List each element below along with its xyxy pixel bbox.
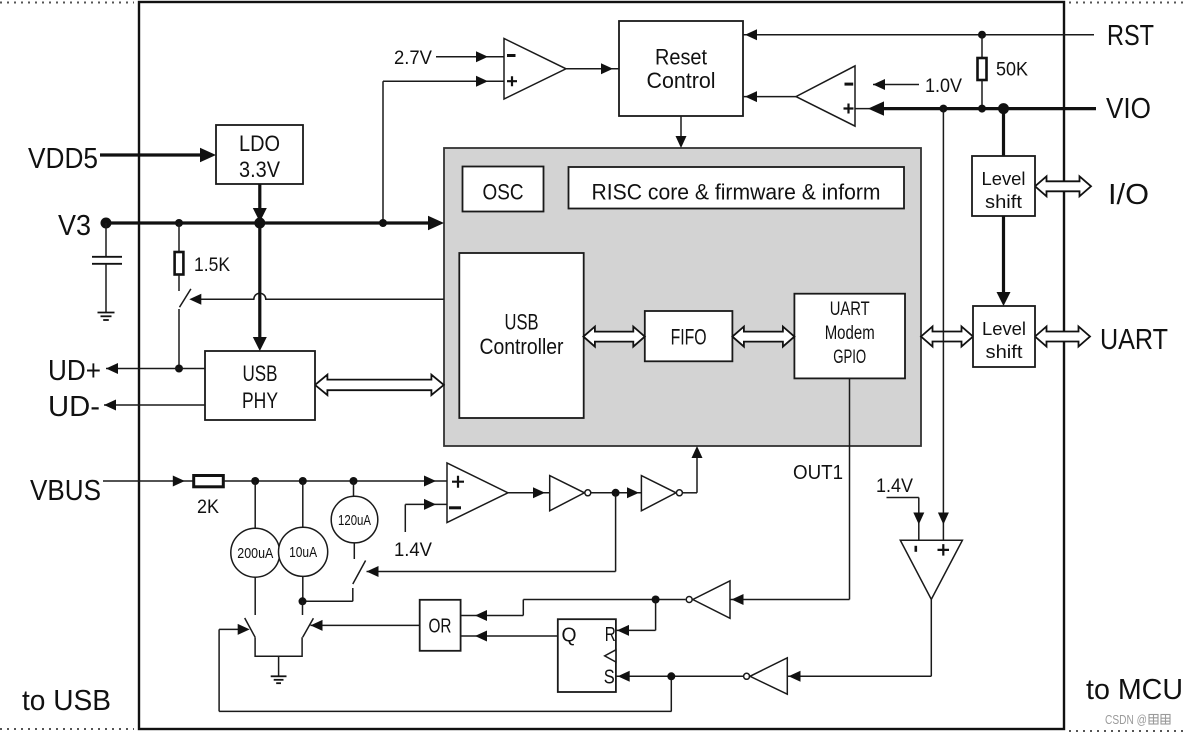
- svg-text:to USB: to USB: [22, 685, 111, 717]
- svg-text:RISC core & firmware & inform: RISC core & firmware & inform: [592, 180, 881, 205]
- svg-text:Reset: Reset: [655, 45, 707, 70]
- svg-text:VIO: VIO: [1106, 93, 1151, 125]
- svg-text:USB: USB: [505, 310, 539, 335]
- svg-text:Q: Q: [562, 624, 577, 646]
- svg-text:PHY: PHY: [242, 388, 278, 413]
- svg-text:1.4V: 1.4V: [394, 540, 432, 561]
- svg-text:1.5K: 1.5K: [194, 255, 230, 276]
- svg-text:S: S: [604, 667, 615, 689]
- svg-text:1.4V: 1.4V: [876, 476, 913, 497]
- svg-text:3.3V: 3.3V: [239, 157, 280, 182]
- svg-text:UD-: UD-: [48, 391, 100, 423]
- svg-text:OUT1: OUT1: [793, 462, 843, 484]
- svg-text:UART: UART: [1100, 324, 1168, 356]
- svg-text:LDO: LDO: [239, 131, 280, 156]
- svg-text:Level: Level: [982, 318, 1026, 339]
- svg-text:Control: Control: [647, 68, 716, 93]
- svg-text:120uA: 120uA: [338, 512, 371, 529]
- svg-text:GPIO: GPIO: [833, 347, 866, 368]
- svg-text:OSC: OSC: [483, 179, 524, 204]
- svg-text:to MCU: to MCU: [1086, 674, 1183, 706]
- svg-text:VDD5: VDD5: [28, 143, 98, 175]
- svg-text:2.7V: 2.7V: [394, 48, 432, 69]
- svg-text:USB: USB: [243, 361, 278, 386]
- svg-text:FIFO: FIFO: [671, 325, 707, 350]
- svg-text:Modem: Modem: [825, 323, 875, 344]
- svg-text:200uA: 200uA: [237, 545, 273, 562]
- svg-text:2K: 2K: [197, 497, 219, 518]
- svg-text:Controller: Controller: [480, 334, 564, 359]
- svg-text:UD+: UD+: [48, 355, 101, 387]
- svg-text:I/O: I/O: [1108, 179, 1149, 211]
- svg-text:OR: OR: [429, 615, 452, 637]
- svg-text:shift: shift: [986, 341, 1023, 362]
- svg-text:10uA: 10uA: [289, 544, 317, 561]
- svg-text:V3: V3: [58, 210, 91, 242]
- svg-text:R: R: [605, 624, 616, 646]
- svg-text:VBUS: VBUS: [30, 475, 101, 507]
- svg-text:UART: UART: [830, 299, 870, 320]
- svg-text:shift: shift: [985, 191, 1022, 212]
- svg-text:Level: Level: [982, 168, 1026, 189]
- svg-text:RST: RST: [1107, 20, 1154, 52]
- svg-text:CSDN @: CSDN @: [1105, 712, 1147, 727]
- svg-text:1.0V: 1.0V: [925, 76, 962, 97]
- svg-text:50K: 50K: [996, 60, 1028, 81]
